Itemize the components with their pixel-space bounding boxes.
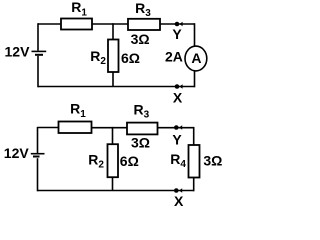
- resistor R3 (top circuit): [128, 19, 160, 30]
- wire: R2 bottom to bottom wire (bottom circuit): [112, 177, 114, 191]
- svg-text:12V: 12V: [5, 44, 31, 60]
- node X dot (bottom circuit): [174, 188, 179, 193]
- wire: ammeter to bottom wire (top circuit): [194, 71, 196, 88]
- svg-text:12V: 12V: [4, 145, 30, 161]
- wire: junction drop to R2 (top circuit): [112, 23, 114, 39]
- battery B2 long plate (bottom circuit): [31, 153, 45, 155]
- wire: right vertical down to ammeter (top circuit): [194, 23, 196, 46]
- svg-text:6Ω: 6Ω: [121, 50, 140, 66]
- battery B1 short plate (top circuit): [35, 54, 43, 56]
- arrowhead at node X (bottom circuit): [179, 188, 182, 193]
- wire: right vertical to R4 (bottom circuit): [193, 127, 195, 145]
- wire: R4 bottom to bottom wire (bottom circuit): [193, 178, 195, 192]
- wire: junction drop to R2 (bottom circuit): [112, 127, 114, 144]
- wire: R1 to R3 horizontal: [92, 23, 128, 25]
- resistor R3 (bottom circuit): [127, 123, 158, 135]
- wire: top-left horizontal (source to R1): [38, 23, 61, 25]
- svg-text:Y: Y: [172, 132, 182, 148]
- wire: R2 bottom to bottom wire (top circuit): [112, 72, 114, 87]
- svg-text:3Ω: 3Ω: [131, 135, 150, 151]
- node X dot (top circuit): [175, 84, 180, 89]
- svg-text:A: A: [191, 50, 201, 66]
- wire: left vertical upper (top circuit): [37, 23, 39, 50]
- arrowhead at node X (top circuit): [179, 84, 182, 89]
- arrowhead at node Y (bottom circuit): [179, 125, 182, 130]
- wire: left vertical upper (bottom circuit): [37, 127, 39, 153]
- battery B1 long plate (top circuit): [32, 50, 47, 52]
- resistor R2 (bottom circuit): [108, 144, 119, 177]
- resistor R2 (top circuit): [108, 40, 119, 73]
- svg-text:3Ω: 3Ω: [131, 31, 150, 47]
- node Y dot (top circuit): [175, 22, 180, 27]
- battery B2 short plate (bottom circuit): [33, 156, 40, 158]
- svg-text:2A: 2A: [165, 49, 183, 65]
- wire: left vertical lower (top circuit): [37, 56, 39, 88]
- wire: bottom horizontal (top circuit): [38, 86, 195, 88]
- wire: top-left horizontal (source to R1, bottom circuit): [38, 127, 59, 129]
- wire: R1 to R3 horizontal (bottom circuit): [92, 127, 128, 129]
- wire: R3 to node Y (top circuit): [160, 23, 195, 25]
- svg-text:X: X: [174, 193, 184, 207]
- resistor R1 (bottom circuit): [59, 122, 92, 134]
- svg-text:X: X: [173, 89, 183, 105]
- resistor R4 (bottom circuit): [189, 145, 200, 178]
- wire: bottom horizontal (bottom circuit): [38, 190, 194, 192]
- node Y dot (bottom circuit): [174, 125, 179, 130]
- wire: R3 to node Y (bottom circuit): [158, 127, 194, 129]
- wire: left vertical lower (bottom circuit): [37, 158, 39, 191]
- svg-text:6Ω: 6Ω: [120, 153, 139, 169]
- svg-text:3Ω: 3Ω: [203, 153, 222, 169]
- arrowhead at node Y (top circuit): [179, 22, 182, 27]
- ammeter U1 circle: [185, 46, 207, 71]
- resistor R1 (top circuit): [61, 19, 92, 30]
- svg-text:Y: Y: [172, 26, 182, 42]
